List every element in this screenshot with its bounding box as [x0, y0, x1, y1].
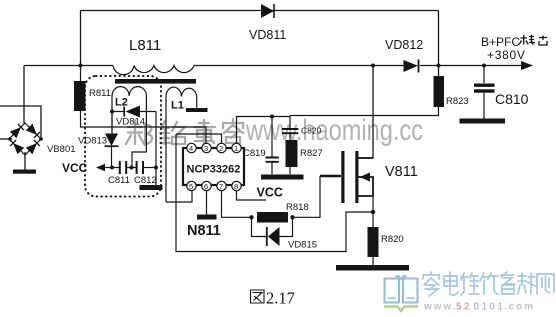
svg-text:R820: R820 [381, 234, 404, 245]
wire VD812 cathode to output arrow [420, 65, 530, 67]
wire L1 left leg to pin5 [166, 97, 192, 203]
inductor L811 primary winding [113, 66, 194, 75]
svg-text:2.17: 2.17 [266, 289, 295, 308]
transistor V811 body arrow [359, 173, 374, 197]
resistor R827 [286, 140, 298, 167]
wire current sense loop [176, 134, 373, 252]
pin 7 [217, 181, 226, 191]
svg-text:VD815: VD815 [288, 240, 317, 251]
VCC arrow [96, 164, 105, 171]
diode VD813 [78, 112, 119, 168]
logo url www.520101.com [423, 302, 535, 313]
pin 3 [202, 143, 211, 153]
svg-text:VD814: VD814 [116, 117, 145, 128]
svg-text:C811: C811 [108, 175, 130, 186]
logo text jiadian weixiu ziliao wang [423, 272, 554, 296]
svg-text:VD811: VD811 [249, 28, 286, 42]
svg-text:6: 6 [204, 182, 208, 191]
wire bridge minus to ground [24, 152, 26, 170]
ground bar C810 [460, 119, 506, 124]
node bridge left vertex [8, 137, 12, 141]
inductor L2 winding [112, 87, 146, 96]
pin 2 [217, 143, 226, 153]
wire VD812 riser from top rail [438, 11, 440, 77]
wire rectified rail [24, 65, 113, 67]
svg-text:www.: www. [423, 302, 457, 313]
bridge rectifier VB801 [9, 123, 41, 155]
svg-text:R827: R827 [300, 148, 323, 159]
wire VCC line [104, 167, 119, 169]
wire L2 left leg [111, 96, 113, 131]
wire pin2 comp [176, 134, 222, 143]
node junction R823 top [437, 64, 441, 68]
svg-text:7: 7 [219, 182, 223, 191]
output arrow B+PFC [521, 61, 533, 70]
node source junction [371, 210, 375, 214]
transistor Q1 MOSFET V811 gate bar [341, 151, 344, 203]
pin 4 [187, 143, 196, 153]
node R818 left [249, 215, 253, 219]
caption figure 2.17 [251, 289, 295, 308]
wire pin7 drive [222, 191, 252, 218]
node C812 ground junction [154, 166, 158, 170]
wire rail L811 to VD812 anode [194, 65, 404, 67]
node R818 right [290, 215, 294, 219]
svg-text:VD812: VD812 [385, 38, 423, 52]
svg-text:VD813: VD813 [78, 136, 107, 147]
svg-text:B+PFC: B+PFC [481, 35, 520, 49]
node junction rail R811 [79, 64, 83, 68]
svg-text:VCC: VCC [62, 161, 88, 175]
svg-text:VCC: VCC [257, 186, 283, 200]
resistor R823 [434, 76, 445, 107]
wire bridge plus to rail [23, 66, 25, 124]
svg-text:0101: 0101 [474, 302, 506, 313]
transistor V811 drain stub [359, 157, 374, 159]
svg-text:NCP33262: NCP33262 [187, 164, 241, 176]
wire R823 bottom to feedback rail [290, 107, 439, 116]
wire L2 right leg to C mid node [132, 96, 146, 168]
wire R818 right to gate [293, 176, 321, 217]
svg-text:52: 52 [456, 302, 472, 313]
transistor V811 channel bar [355, 151, 358, 203]
resistor R811 [74, 81, 86, 111]
ground hot C812 [140, 185, 163, 190]
wire drain riser [359, 66, 374, 159]
op-amp U1 IC N811 NCP33262 box [183, 148, 244, 185]
pin 8 [232, 181, 241, 191]
svg-text:R823: R823 [446, 96, 469, 107]
wire AC input lower [0, 138, 10, 140]
pin 6 [202, 181, 211, 191]
node junction C810 top [482, 64, 486, 68]
node junction drain [371, 64, 375, 68]
diode VD812 [385, 38, 423, 73]
ground C819 R827 [261, 175, 304, 180]
label B+PFC output [481, 35, 547, 62]
svg-text:VB801: VB801 [47, 144, 76, 155]
svg-text:L2: L2 [115, 97, 128, 109]
wire R811 to mult pin3 [81, 66, 207, 144]
diode VD811 [249, 4, 286, 42]
ground pin6 [197, 215, 217, 220]
dashed isolation box [85, 76, 161, 197]
diode VD814 [113, 106, 156, 128]
logo book green base [384, 307, 418, 312]
wire left riser to top rail [80, 11, 82, 66]
capacitor C810 [474, 66, 529, 119]
inductor L1 winding [166, 87, 197, 96]
wire pin8 vcc stub [237, 191, 267, 200]
diode VD815 [252, 217, 318, 250]
resistor R820 [368, 212, 404, 265]
wire R827 to ground [289, 167, 291, 174]
capacitor C811 [108, 161, 136, 186]
wire pin6 to ground [206, 191, 208, 215]
node C819 junction [270, 115, 274, 119]
node VD814 cathode junction [110, 110, 114, 114]
svg-text:N811: N811 [187, 223, 221, 239]
ground bridge [13, 170, 36, 174]
capacitor C820 [282, 116, 322, 141]
node VD813 to VCC junction [110, 166, 114, 170]
wire gate lead thick [320, 175, 341, 178]
svg-text:1: 1 [234, 144, 238, 153]
svg-text:C820: C820 [301, 126, 322, 136]
logo book icon [385, 276, 418, 302]
svg-text:R818: R818 [286, 202, 309, 213]
wire source to node [372, 196, 374, 212]
svg-text:R811: R811 [89, 88, 111, 99]
svg-text:L1: L1 [171, 100, 184, 112]
svg-text:3: 3 [204, 144, 208, 153]
ground L1 [186, 108, 208, 112]
svg-text:5: 5 [189, 182, 193, 191]
resistor R818 [257, 212, 288, 223]
wire top rail [81, 10, 439, 12]
svg-text:C810: C810 [495, 91, 529, 107]
svg-text:+380V: +380V [487, 48, 526, 62]
capacitor C812 [134, 161, 157, 186]
svg-text:.com: .com [504, 302, 535, 313]
wire VD814 anode drop to ground [155, 112, 157, 186]
svg-text:C819: C819 [243, 148, 266, 159]
pin 5 [187, 181, 196, 191]
svg-text:V811: V811 [385, 164, 418, 180]
node bridge right vertex [39, 137, 43, 141]
ground main bottom [336, 265, 409, 271]
wire AC input upper [0, 106, 41, 139]
wire pin1 feedback rail [237, 117, 291, 144]
svg-text:2: 2 [219, 144, 223, 153]
node C811 C812 junction [130, 166, 134, 170]
L811 core bar [115, 79, 196, 84]
svg-text:4: 4 [189, 144, 193, 153]
svg-text:8: 8 [234, 182, 238, 191]
pin 1 [232, 143, 241, 153]
wire L1 right leg [196, 97, 198, 109]
svg-text:C812: C812 [134, 175, 157, 186]
capacitor C819 [243, 117, 279, 175]
svg-text:L811: L811 [129, 37, 161, 54]
